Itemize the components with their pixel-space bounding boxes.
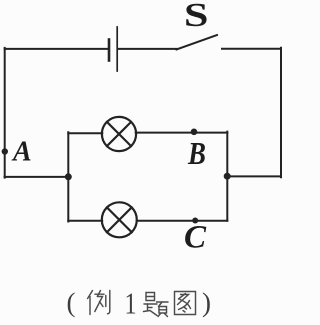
node B dot: [191, 129, 198, 136]
wire lower branch left: [68, 220, 102, 222]
junction dot left: [65, 173, 72, 180]
node A dot: [2, 148, 8, 154]
junction dot right: [224, 173, 231, 180]
svg-text:): ): [202, 288, 211, 318]
lamp L2 circle: [102, 202, 137, 237]
svg-text:B: B: [187, 137, 206, 172]
wire battery to switch: [118, 48, 177, 50]
node C dot: [192, 218, 198, 224]
lamp L1 circle: [102, 117, 136, 151]
wire parallel-block right vertical: [226, 132, 228, 221]
battery V1 short plate: [108, 40, 111, 61]
wire top-left: [5, 48, 108, 50]
wire switch to corner: [222, 48, 281, 50]
wire lower branch right: [137, 220, 228, 222]
battery V1 long plate: [116, 27, 118, 71]
wire left vertical: [4, 48, 6, 178]
caption digit 1: [124, 287, 136, 322]
caption glyph 例: [88, 291, 110, 315]
wire bottom-left horizontal: [5, 176, 69, 178]
label B: [187, 137, 206, 172]
switch S lever: [177, 35, 218, 50]
label S: [184, 0, 209, 34]
wire bottom-right horizontal: [227, 175, 281, 177]
svg-text:C: C: [184, 220, 207, 256]
caption glyph 图: [175, 292, 196, 315]
svg-text:S: S: [184, 0, 209, 34]
lamp L1 cross: [107, 122, 131, 146]
caption glyph 题: [144, 293, 169, 317]
svg-text:1: 1: [124, 287, 136, 322]
wire upper branch left: [68, 132, 102, 134]
wire upper branch right: [136, 132, 228, 134]
lamp L2 cross: [107, 207, 132, 232]
wire right vertical: [280, 48, 282, 178]
wire parallel-block left vertical: [67, 132, 69, 221]
svg-text:(: (: [67, 288, 76, 318]
svg-text:A: A: [11, 136, 32, 167]
